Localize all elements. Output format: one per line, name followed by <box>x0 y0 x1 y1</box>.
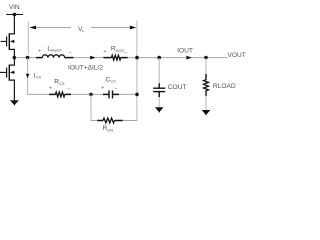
wire VL left leader bar <box>27 22 29 54</box>
label RCS <box>54 79 65 86</box>
label COUT <box>168 84 187 91</box>
label plus at RCS left <box>49 85 52 91</box>
transistor top NMOS switch <box>1 33 15 50</box>
wire COUT branch lower (thin) <box>158 97 160 108</box>
wire RON loop bottom left (thin) <box>91 120 98 122</box>
wire VIN rail to top MOSFET drain <box>13 15 15 35</box>
wire arrow to RDCR (thin) <box>96 57 104 59</box>
svg-text:CCS: CCS <box>106 76 117 83</box>
node RLOAD tap junction dot <box>204 56 208 60</box>
resistor RON with leads <box>97 118 123 123</box>
capacitor CCS with leads <box>103 90 119 98</box>
node sense output junction dot <box>135 93 139 97</box>
resistor RLOAD with leads <box>204 74 209 96</box>
svg-text:RCS: RCS <box>54 79 65 86</box>
wire RCS to CCS node (thin) <box>71 93 103 95</box>
svg-text:RON: RON <box>103 125 114 132</box>
svg-text:COUT: COUT <box>168 84 187 91</box>
node RON/CCS left junction dot <box>89 93 93 97</box>
wire bottom MOSFET source to ground <box>13 80 15 101</box>
inductor LBUCK with leads <box>36 55 74 58</box>
label minus at RDCR right <box>124 50 127 56</box>
wire IOUT current arrowhead <box>186 56 192 60</box>
label minus at RCS right <box>68 85 71 91</box>
label plus at inductor left <box>38 49 41 55</box>
wire VL right leader bar and sense-output drop <box>136 21 138 121</box>
label VOUT <box>228 52 246 59</box>
label LBUCK <box>47 45 62 52</box>
node VIN label <box>9 4 20 11</box>
wire VL dimension line right segment <box>91 27 131 29</box>
wire VIN terminal tick <box>6 14 23 16</box>
label ICS <box>34 72 42 79</box>
node SW junction dot <box>13 56 17 60</box>
wire ICS arrowhead <box>26 74 30 79</box>
label VL <box>78 26 85 33</box>
label IOUT <box>177 48 193 55</box>
resistor RCS with leads <box>49 92 71 97</box>
wire SW node to inductor (thin) <box>16 57 37 59</box>
label IOUT+dIL/2 <box>68 65 103 72</box>
ground below COUT <box>155 107 164 112</box>
svg-text:RLOAD: RLOAD <box>213 83 236 90</box>
label RON <box>103 125 114 132</box>
svg-text:–: – <box>124 50 127 56</box>
wire sense branch vertical lower (thin) <box>27 78 29 95</box>
label plus at CCS left <box>101 85 104 91</box>
label CCS <box>106 76 117 83</box>
wire inductor current arrowhead <box>90 56 96 60</box>
wire inductor to current arrow (thin) <box>74 57 91 59</box>
wire RON loop left vertical (thin) <box>90 94 92 121</box>
wire VL left arrowhead <box>29 26 36 30</box>
svg-text:–: – <box>68 85 71 91</box>
node VL/sense right junction dot <box>135 56 139 60</box>
svg-text:VOUT: VOUT <box>228 52 246 59</box>
wire top MOSFET source through SW node to bottom MOSFET drain <box>13 49 15 66</box>
node VIN junction dot <box>13 13 17 17</box>
wire COUT branch upper (thin) <box>158 58 160 84</box>
wire VL right arrowhead <box>130 26 137 30</box>
wire RLOAD branch lower (thin) <box>205 96 207 110</box>
label RLOAD <box>213 83 236 90</box>
svg-text:RDCR: RDCR <box>111 46 124 53</box>
wire VL dimension line left segment <box>35 27 71 29</box>
svg-text:–: – <box>114 85 117 91</box>
svg-text:+: + <box>101 85 104 91</box>
resistor RDCR with leads <box>104 55 128 60</box>
capacitor COUT with leads <box>153 83 165 97</box>
wire RLOAD branch upper (thin) <box>205 58 207 74</box>
svg-text:+: + <box>38 49 41 55</box>
svg-text:+: + <box>49 85 52 91</box>
svg-text:+: + <box>103 49 106 55</box>
svg-text:IOUT: IOUT <box>177 48 193 55</box>
svg-text:LBUCK: LBUCK <box>47 45 62 52</box>
ground below bottom MOSFET <box>10 100 19 105</box>
node COUT tap junction dot <box>157 56 161 60</box>
label minus at inductor right <box>69 50 72 56</box>
svg-text:ICS: ICS <box>34 72 42 79</box>
label RDCR <box>111 46 124 53</box>
node sense tap junction dot <box>26 56 30 60</box>
svg-text:VIN: VIN <box>9 4 20 11</box>
wire sense branch vertical upper (thin) <box>27 58 29 74</box>
wire IOUT arrow to VOUT (thin) <box>192 57 228 59</box>
wire sense corner to RCS (thin) <box>27 93 49 95</box>
transistor bottom NMOS switch <box>0 65 15 81</box>
label plus at RDCR left <box>103 49 106 55</box>
wire RON loop bottom right (thin) <box>123 120 138 122</box>
wire RDCR to IOUT arrow (thin) <box>128 57 186 59</box>
ground below RLOAD <box>202 110 211 115</box>
svg-text:IOUT+ΔIL/2: IOUT+ΔIL/2 <box>68 65 103 72</box>
wire CCS to right junction (thin) <box>119 93 137 95</box>
svg-text:VL: VL <box>78 26 85 33</box>
svg-text:–: – <box>69 50 72 56</box>
label minus at CCS right <box>114 85 117 91</box>
